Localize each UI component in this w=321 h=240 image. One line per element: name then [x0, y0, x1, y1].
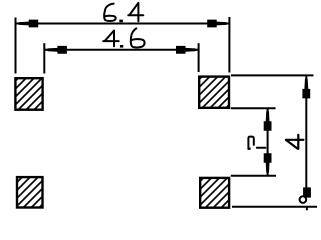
wire extension line right 6.4	[228, 17, 230, 73]
arrow up dim 4	[302, 76, 310, 98]
label 6.4 : decimal point	[119, 20, 123, 23]
arrow down dim 2	[264, 153, 272, 175]
wire extension line bottom of dim 4	[232, 206, 317, 208]
pad bottom-right hatched	[200, 178, 229, 208]
label 4.6 : digit 6	[131, 28, 145, 47]
wire extension line right 4.6	[198, 43, 200, 72]
wire dim line 2	[267, 109, 269, 176]
wire extension line top of dim 4	[231, 74, 314, 76]
label 4.6 : digit 4	[103, 31, 119, 47]
arrow up dim 2	[264, 109, 272, 131]
wire extension line top of dim 2	[231, 107, 276, 109]
circle at bottom of dim 4	[300, 196, 307, 203]
pad bottom-left hatched	[17, 177, 43, 207]
wire extension line left 4.6	[43, 43, 45, 73]
arrow right 6.4	[207, 20, 229, 28]
label 2 : foot serif	[248, 148, 251, 150]
label 2 (rotated)	[248, 137, 265, 149]
wire extension line bottom of dim 2	[231, 175, 276, 177]
label 6.4 : digit 6	[104, 4, 116, 21]
arrow left 4.6	[45, 46, 67, 54]
wire stub below bottom extension	[306, 207, 308, 211]
arrow right 4.6	[176, 46, 198, 54]
pad top-right hatched	[199, 77, 229, 108]
arrow left 6.4	[16, 20, 38, 28]
label 4 (rotated)	[286, 135, 304, 149]
wire dim line 4.6	[44, 49, 198, 51]
arrow down dim 4 (blocky)	[303, 187, 311, 197]
wire dim line 4	[305, 76, 307, 188]
wire dim line 6.4	[16, 23, 230, 25]
pad top-left hatched	[15, 78, 42, 110]
label 6.4 : digit 4	[128, 3, 143, 21]
label 4.6 : decimal point	[120, 45, 123, 48]
wire extension line left 6.4	[15, 18, 17, 74]
